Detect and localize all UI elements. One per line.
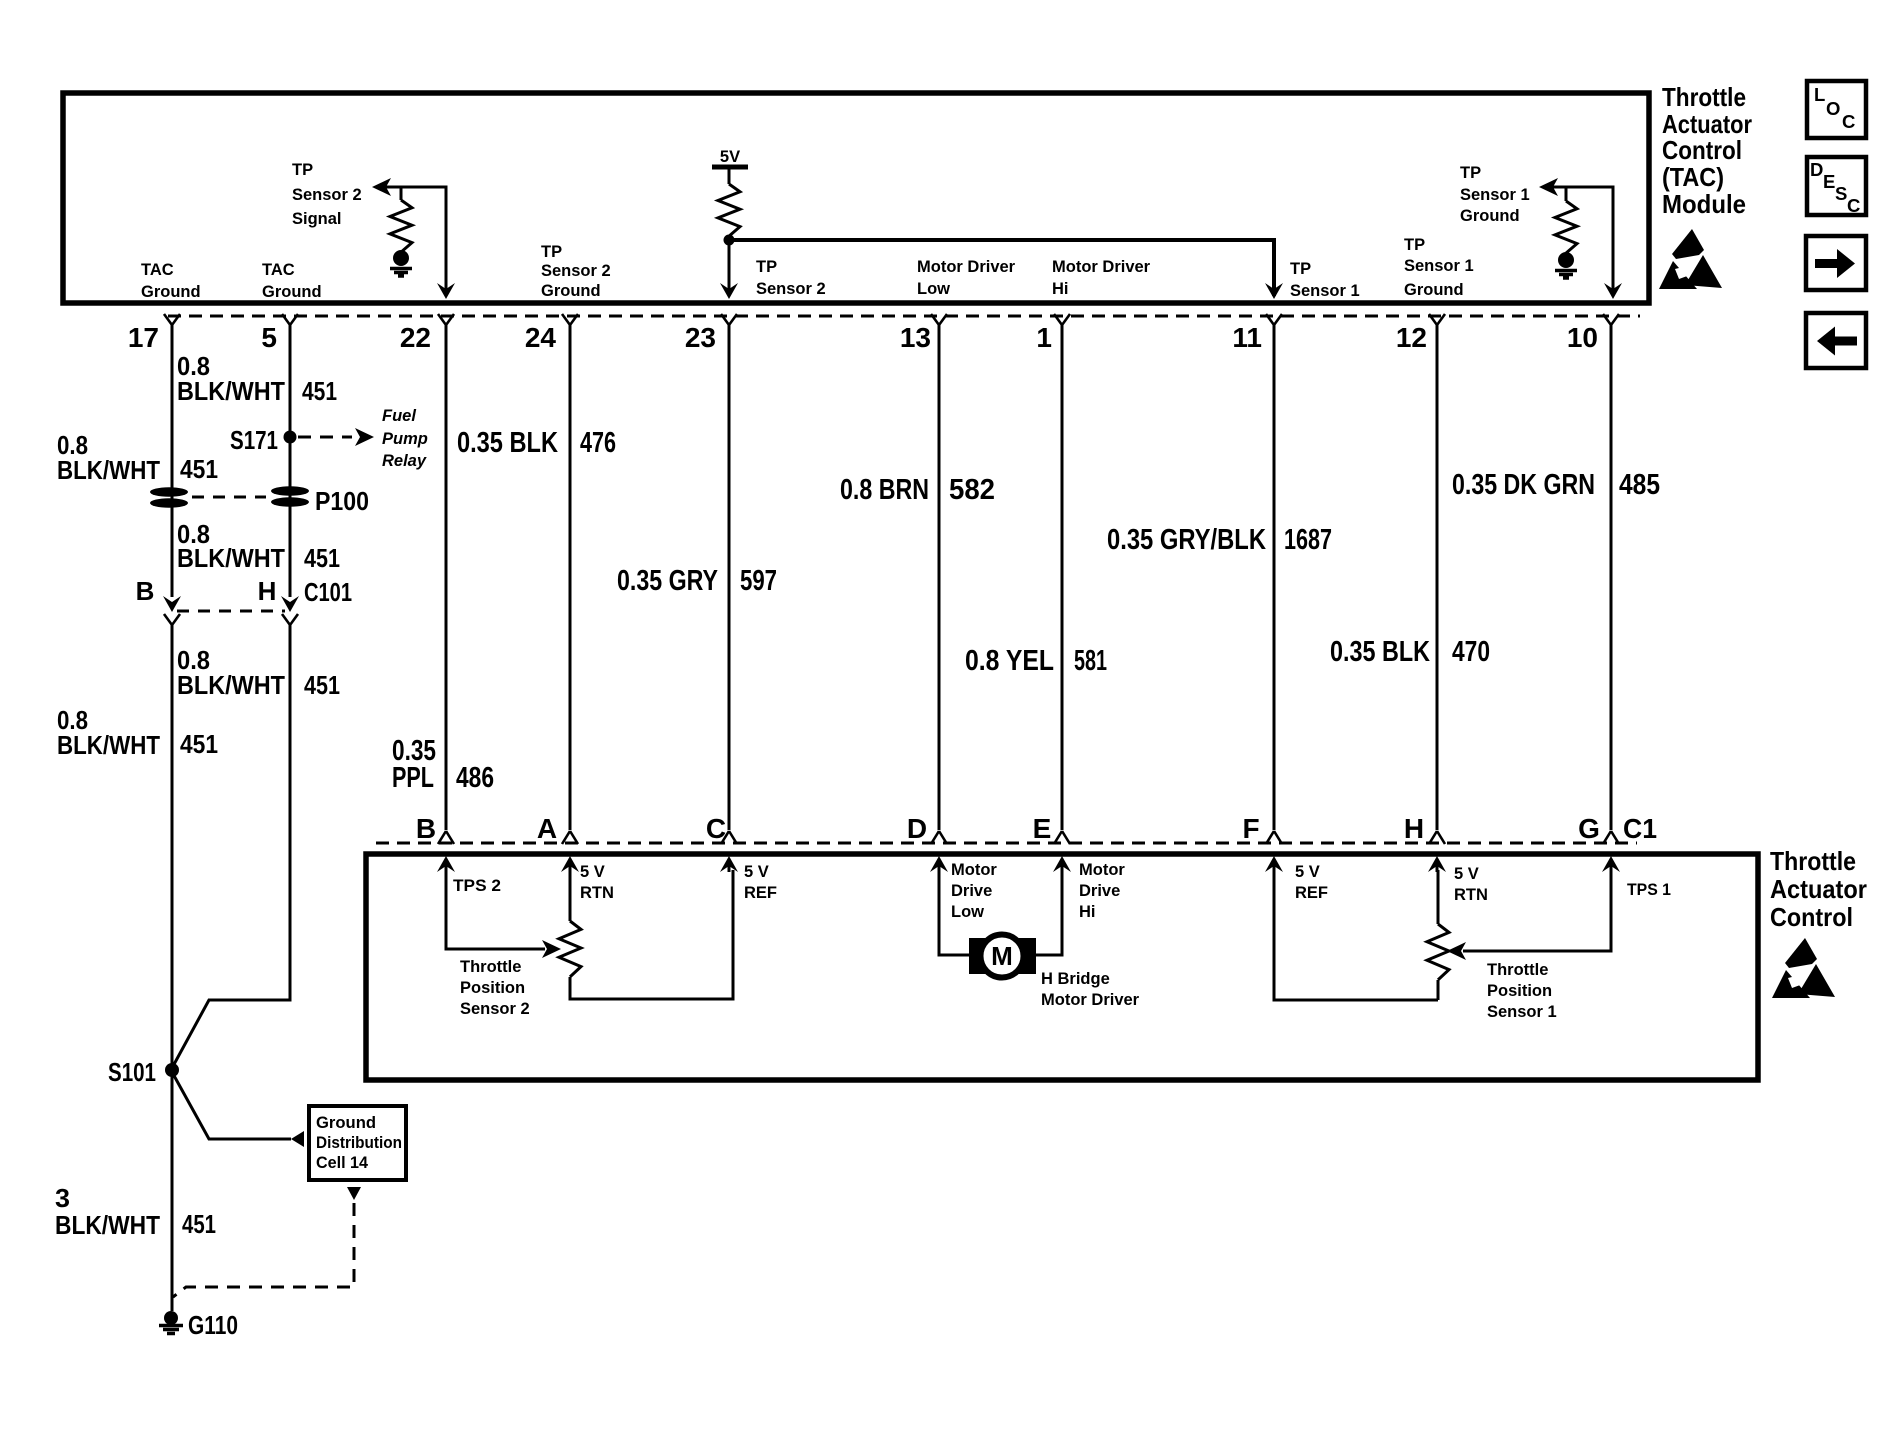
wire pin G entry arrow — [1602, 856, 1620, 872]
TAC module title label — [1662, 82, 1752, 219]
svg-text:B: B — [136, 576, 155, 606]
svg-text:Sensor 1: Sensor 1 — [1460, 186, 1530, 204]
svg-text:Sensor 2: Sensor 2 — [756, 280, 826, 298]
value label 0.8 BLK/WHT 451 (pin17 upper) — [57, 430, 218, 485]
svg-text:Throttle: Throttle — [1662, 82, 1746, 112]
svg-text:597: 597 — [740, 565, 777, 597]
value label 0.35 DK GRN 485 — [1452, 469, 1660, 501]
svg-text:TPS 2: TPS 2 — [453, 877, 501, 895]
ESD symbol (throttle body) — [1772, 938, 1835, 998]
svg-text:0.35 GRY/BLK: 0.35 GRY/BLK — [1107, 524, 1266, 556]
svg-text:C: C — [706, 813, 726, 844]
svg-text:Throttle: Throttle — [1487, 961, 1548, 979]
value label 0.8 BLK/WHT 451 (pin5 upper) — [177, 351, 337, 406]
svg-text:A: A — [537, 813, 557, 844]
label Throttle Position Sensor 1 — [1487, 961, 1557, 1021]
wire 451 pin 17 (TAC ground) — [171, 325, 174, 1311]
svg-text:BLK/WHT: BLK/WHT — [177, 543, 285, 573]
pin F connector — [1242, 813, 1282, 844]
svg-text:485: 485 — [1619, 469, 1660, 501]
label TP Sensor 1 Ground pin 12 — [1404, 236, 1474, 299]
svg-text:11: 11 — [1232, 322, 1262, 353]
label TP Sensor 1 Ground (internal) — [1460, 164, 1530, 225]
svg-text:24: 24 — [525, 322, 557, 353]
connector C101 (pins B and H) — [136, 576, 352, 625]
pin 5 connector — [261, 314, 298, 353]
svg-text:5 V: 5 V — [580, 863, 605, 881]
pin 1 connector — [1036, 314, 1070, 353]
svg-text:10: 10 — [1567, 322, 1598, 353]
svg-text:1687: 1687 — [1284, 524, 1332, 556]
svg-text:Ground: Ground — [1404, 281, 1464, 299]
pin 23 connector — [685, 314, 737, 353]
svg-text:486: 486 — [456, 762, 494, 794]
svg-text:P100: P100 — [315, 486, 369, 516]
svg-text:0.35 GRY: 0.35 GRY — [617, 565, 718, 597]
label 5V REF (pin F) — [1295, 863, 1328, 902]
pin 10 connector — [1567, 314, 1619, 353]
TAC module box — [63, 93, 1649, 303]
svg-text:Actuator: Actuator — [1770, 874, 1867, 904]
svg-text:O: O — [1826, 98, 1840, 119]
svg-text:Throttle: Throttle — [1770, 846, 1856, 876]
nav button LOC — [1807, 81, 1866, 138]
value label 3 BLK/WHT 451 (to G110) — [55, 1183, 216, 1240]
label TPS 1 — [1627, 881, 1671, 899]
svg-text:Drive: Drive — [951, 882, 992, 900]
top harness connector dashed line — [168, 315, 1640, 318]
value label 0.35 BLK 476 — [457, 427, 616, 459]
svg-text:3: 3 — [55, 1183, 70, 1213]
value label 0.8 BLK/WHT 451 (pin5 lower) — [177, 645, 340, 700]
value label 0.8 BRN 582 — [840, 474, 995, 506]
wire TPS 1 wiper (pin G) — [1447, 870, 1611, 960]
wire dashed Ground Distribution to wire 451 — [173, 1187, 361, 1297]
svg-text:Low: Low — [917, 280, 950, 298]
svg-text:Sensor 1: Sensor 1 — [1487, 1003, 1557, 1021]
potentiometer Throttle Position Sensor 1 — [1427, 870, 1449, 1000]
svg-text:Ground: Ground — [541, 282, 601, 300]
wire 5V junction to pin 23 — [720, 240, 738, 299]
Ground Distribution Cell 14 box — [309, 1106, 406, 1180]
wire sub-box top rail to pin 11 — [729, 240, 1283, 299]
nav button DESC — [1807, 157, 1866, 216]
label Motor Drive Hi — [1079, 861, 1125, 921]
resistor (TP Sensor 2 pull-up) — [390, 187, 412, 252]
wire 476 pin 22 to pin B — [445, 325, 448, 830]
svg-text:451: 451 — [302, 376, 337, 406]
pin G connector — [1578, 813, 1619, 844]
svg-text:BLK/WHT: BLK/WHT — [57, 730, 160, 760]
connector P100 grommet (wire 5) — [271, 486, 309, 507]
svg-text:L: L — [1814, 84, 1825, 105]
svg-text:Cell 14: Cell 14 — [316, 1153, 369, 1172]
svg-text:Ground: Ground — [316, 1113, 376, 1132]
wire TP Sensor 2 Signal to pin 22 — [372, 178, 455, 299]
motor M (H bridge) — [969, 935, 1036, 978]
wire pin D entry arrow — [930, 856, 948, 872]
svg-text:Ground: Ground — [262, 283, 322, 301]
svg-text:Control: Control — [1662, 135, 1742, 165]
svg-text:H: H — [258, 576, 277, 606]
wire pin A entry arrow — [561, 856, 579, 872]
label TAC Ground pin 5 — [262, 261, 322, 301]
node 5V supply — [712, 148, 748, 184]
label TP Sensor 2 pin 23 — [756, 258, 826, 298]
svg-text:G110: G110 — [188, 1310, 238, 1340]
svg-text:BLK/WHT: BLK/WHT — [177, 670, 285, 700]
svg-text:Drive: Drive — [1079, 882, 1120, 900]
ground (TP Sensor 1 resistor) — [1555, 252, 1577, 278]
svg-text:Sensor 2: Sensor 2 — [292, 186, 362, 204]
svg-text:Fuel: Fuel — [382, 407, 416, 425]
svg-text:D: D — [1810, 159, 1823, 180]
svg-text:M: M — [991, 941, 1013, 971]
pin 12 connector — [1396, 314, 1445, 353]
value label 0.35 PPL 486 — [392, 735, 494, 794]
svg-text:Low: Low — [951, 903, 984, 921]
svg-text:5: 5 — [261, 322, 277, 353]
svg-text:5 V: 5 V — [1295, 863, 1320, 881]
pin 13 connector — [900, 314, 947, 353]
svg-text:TPS 1: TPS 1 — [1627, 881, 1671, 899]
svg-text:Motor: Motor — [951, 861, 997, 879]
svg-text:581: 581 — [1074, 645, 1107, 677]
svg-text:S101: S101 — [108, 1057, 156, 1087]
ground G110 — [159, 1310, 238, 1340]
svg-text:BLK/WHT: BLK/WHT — [177, 376, 285, 406]
wire 470 pin 12 to pin H — [1436, 325, 1439, 830]
svg-text:Distribution: Distribution — [316, 1133, 402, 1152]
pin A connector — [537, 813, 578, 844]
label 5V RTN (pin H) — [1454, 865, 1488, 904]
wire pin C entry arrow — [720, 856, 738, 872]
svg-text:B: B — [416, 813, 436, 844]
svg-text:Motor: Motor — [1079, 861, 1125, 879]
svg-text:TP: TP — [756, 258, 777, 276]
svg-text:Ground: Ground — [141, 283, 201, 301]
pin 22 connector — [400, 314, 454, 353]
pin 17 connector — [128, 314, 180, 353]
wire pin B entry arrow — [437, 856, 455, 872]
node junction at 5V resistor bottom — [724, 235, 735, 246]
svg-text:0.8 YEL: 0.8 YEL — [965, 645, 1054, 677]
node S171 splice — [230, 425, 297, 455]
svg-text:C101: C101 — [304, 577, 352, 607]
wire 451 pin 5 (TAC ground) — [172, 325, 290, 1068]
pin 11 connector — [1232, 314, 1282, 353]
label connector C1 — [1623, 813, 1657, 844]
svg-text:E: E — [1033, 813, 1052, 844]
pin C connector — [706, 813, 737, 844]
bottom harness connector dashed line — [376, 842, 1637, 845]
nav button next arrow — [1806, 236, 1866, 290]
svg-text:451: 451 — [180, 454, 218, 484]
connector P100 grommet (wire 17) — [150, 487, 188, 508]
wire dashed P100 link — [192, 486, 369, 516]
wire Motor Drive Hi (pin E) — [1036, 870, 1062, 955]
svg-text:BLK/WHT: BLK/WHT — [55, 1210, 160, 1240]
pin B connector — [416, 813, 454, 844]
pin 24 connector — [525, 314, 578, 353]
value label 0.8 BLK/WHT 451 (pin17 lower) — [57, 705, 218, 760]
wire pin H entry arrow — [1428, 856, 1446, 872]
wire TPS 2 wiper (pin B) — [446, 870, 561, 958]
svg-text:TAC: TAC — [141, 261, 174, 279]
resistor (TP Sensor 1 pull-up) — [1555, 187, 1577, 253]
label Motor Driver Hi pin 1 — [1052, 258, 1151, 298]
svg-text:D: D — [907, 813, 927, 844]
svg-text:476: 476 — [580, 427, 616, 459]
svg-text:Position: Position — [1487, 982, 1552, 1000]
pin E connector — [1033, 813, 1070, 844]
svg-text:C: C — [1847, 195, 1860, 216]
potentiometer Throttle Position Sensor 2 — [559, 870, 733, 999]
label Throttle Position Sensor 2 — [460, 958, 530, 1018]
svg-text:12: 12 — [1396, 322, 1427, 353]
svg-text:5 V: 5 V — [1454, 865, 1479, 883]
svg-text:451: 451 — [182, 1209, 216, 1239]
ESD symbol (module) — [1659, 229, 1722, 289]
svg-text:Motor Driver: Motor Driver — [1041, 991, 1140, 1009]
value label 0.8 BLK/WHT 451 (pin5 mid) — [177, 519, 340, 573]
svg-text:0.8 BRN: 0.8 BRN — [840, 474, 929, 506]
svg-text:TP: TP — [1460, 164, 1481, 182]
svg-text:BLK/WHT: BLK/WHT — [57, 455, 160, 485]
svg-text:451: 451 — [304, 670, 340, 700]
svg-text:17: 17 — [128, 322, 159, 353]
svg-text:C1: C1 — [1623, 813, 1657, 844]
label Motor Driver Low pin 13 — [917, 258, 1016, 298]
resistor (5V pull-up) — [718, 184, 740, 240]
value label 0.35 BLK 470 — [1330, 636, 1490, 668]
Throttle Actuator Control box — [366, 854, 1758, 1080]
svg-text:451: 451 — [180, 729, 218, 759]
svg-text:Sensor 1: Sensor 1 — [1404, 257, 1474, 275]
svg-text:RTN: RTN — [580, 884, 614, 902]
wire dashed to Fuel Pump Relay — [298, 428, 374, 446]
svg-text:E: E — [1823, 171, 1835, 192]
svg-text:PPL: PPL — [392, 762, 434, 794]
svg-text:0.35 BLK: 0.35 BLK — [1330, 636, 1430, 668]
svg-text:22: 22 — [400, 322, 431, 353]
wire pin E entry arrow — [1053, 856, 1071, 872]
svg-text:Control: Control — [1770, 902, 1853, 932]
svg-text:Hi: Hi — [1079, 903, 1096, 921]
wire 581 pin 1 to pin E — [1061, 325, 1064, 830]
svg-text:TP: TP — [541, 243, 562, 261]
wire S101 to Ground Distribution — [172, 1072, 304, 1147]
label H Bridge Motor Driver — [1041, 970, 1140, 1009]
label Motor Drive Low — [951, 861, 997, 921]
svg-text:Motor Driver: Motor Driver — [917, 258, 1016, 276]
svg-text:H Bridge: H Bridge — [1041, 970, 1110, 988]
label TP Sensor 2 Signal — [292, 161, 362, 228]
nav button back arrow — [1806, 313, 1866, 368]
label TAC Ground pin 17 — [141, 261, 201, 301]
label Throttle Actuator Control — [1770, 846, 1867, 932]
wire 485 pin 10 to pin G — [1610, 325, 1613, 830]
svg-text:13: 13 — [900, 322, 931, 353]
svg-text:TAC: TAC — [262, 261, 295, 279]
svg-text:REF: REF — [1295, 884, 1328, 902]
svg-text:Position: Position — [460, 979, 525, 997]
pin D connector — [907, 813, 947, 844]
svg-text:H: H — [1404, 813, 1424, 844]
wire 486 pin 24 to pin A — [569, 325, 572, 830]
svg-text:Signal: Signal — [292, 210, 342, 228]
value label 0.35 GRY/BLK 1687 — [1107, 524, 1332, 556]
svg-text:23: 23 — [685, 322, 716, 353]
wire TP Sensor 1 Ground to pin 10 — [1539, 178, 1622, 299]
svg-text:RTN: RTN — [1454, 886, 1488, 904]
wire pin F entry arrow — [1265, 856, 1283, 872]
label 5V REF (pin C) — [744, 863, 777, 902]
svg-text:Relay: Relay — [382, 452, 427, 470]
svg-text:0.35 DK GRN: 0.35 DK GRN — [1452, 469, 1595, 501]
svg-text:470: 470 — [1452, 636, 1490, 668]
wire 582 pin 13 to pin D — [938, 325, 941, 830]
svg-text:Module: Module — [1662, 189, 1746, 219]
svg-text:TP: TP — [292, 161, 313, 179]
label TPS 2 — [453, 877, 501, 895]
svg-text:S171: S171 — [230, 425, 278, 455]
svg-text:5 V: 5 V — [744, 863, 769, 881]
svg-text:Sensor 2: Sensor 2 — [460, 1000, 530, 1018]
wire Motor Drive Low (pin D) — [939, 870, 969, 955]
svg-text:TP: TP — [1404, 236, 1425, 254]
ground (TP Sensor 2 resistor) — [390, 250, 412, 276]
svg-text:F: F — [1242, 813, 1259, 844]
value label 0.35 GRY 597 — [617, 565, 777, 597]
label Fuel Pump Relay — [382, 407, 428, 470]
svg-text:582: 582 — [949, 474, 995, 506]
value label 0.8 YEL 581 — [965, 645, 1107, 677]
label 5V RTN (pin A) — [580, 863, 614, 902]
svg-text:C: C — [1842, 111, 1855, 132]
wire 1687 pin 11 to pin F — [1273, 325, 1276, 830]
svg-text:S: S — [1835, 183, 1847, 204]
svg-text:Sensor 1: Sensor 1 — [1290, 282, 1360, 300]
svg-text:(TAC): (TAC) — [1662, 162, 1724, 192]
svg-text:REF: REF — [744, 884, 777, 902]
wire 5V REF (pin F) — [1274, 870, 1438, 1000]
svg-text:0.35 BLK: 0.35 BLK — [457, 427, 558, 459]
svg-text:Pump: Pump — [382, 430, 428, 448]
node S101 splice — [108, 1057, 179, 1087]
svg-text:Ground: Ground — [1460, 207, 1520, 225]
svg-text:TP: TP — [1290, 260, 1311, 278]
svg-text:Motor Driver: Motor Driver — [1052, 258, 1151, 276]
svg-text:Sensor 2: Sensor 2 — [541, 262, 611, 280]
label TP Sensor 2 Ground pin 24 — [541, 243, 611, 300]
svg-text:1: 1 — [1036, 322, 1052, 353]
label TP Sensor 1 pin 11 — [1290, 260, 1360, 300]
svg-text:Hi: Hi — [1052, 280, 1069, 298]
svg-text:G: G — [1578, 813, 1600, 844]
wire 597 pin 23 to pin C — [728, 325, 731, 830]
svg-text:Throttle: Throttle — [460, 958, 521, 976]
svg-text:451: 451 — [304, 543, 340, 573]
pin H connector — [1404, 813, 1445, 844]
svg-text:5V: 5V — [720, 148, 740, 166]
